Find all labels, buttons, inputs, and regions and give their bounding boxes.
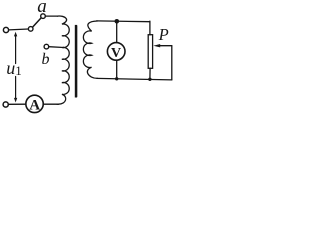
- wire secondary top: [97, 20, 150, 23]
- wire V branch lower: [116, 60, 118, 78]
- junction dot bottom (rheostat): [148, 78, 151, 81]
- secondary coil L2: [83, 21, 97, 78]
- rheostat P rectangle: [148, 35, 152, 69]
- switch pivot circle: [28, 27, 33, 32]
- wire right branch down to rheostat: [149, 21, 151, 35]
- contact b circle: [44, 44, 49, 49]
- ammeter A circle: [26, 95, 43, 112]
- wire b to coil tap: [49, 46, 62, 49]
- wire ammeter to coil: [44, 103, 59, 105]
- wire secondary bottom: [97, 78, 172, 80]
- wire right vertical (wiper return): [171, 46, 173, 80]
- terminal T1 (top left input): [3, 27, 8, 32]
- junction dot bottom (V branch): [115, 77, 118, 80]
- wire rheostat bottom lead: [149, 68, 151, 79]
- wiper arrowhead: [153, 44, 160, 47]
- svg-text:1: 1: [15, 63, 22, 78]
- u1 arrow upper segment: [15, 36, 17, 64]
- terminal T2 (bottom left input): [3, 102, 8, 107]
- wire wiper arrow line: [159, 45, 172, 47]
- wire top-left: [9, 28, 29, 31]
- transformer core bar: [75, 25, 77, 98]
- svg-text:P: P: [158, 25, 169, 44]
- switch blade: [33, 18, 42, 27]
- primary coil L1: [57, 16, 69, 104]
- svg-text:u: u: [6, 58, 15, 78]
- voltmeter V circle: [107, 43, 125, 61]
- wire a to coil: [45, 15, 57, 17]
- u1 arrowhead down: [14, 98, 17, 103]
- svg-text:a: a: [37, 0, 47, 17]
- u1 arrowhead up: [14, 32, 17, 37]
- svg-text:A: A: [29, 97, 40, 113]
- svg-text:b: b: [42, 51, 50, 68]
- contact a circle: [41, 14, 46, 19]
- u1 arrow lower segment: [15, 77, 17, 99]
- wire bottom-left to ammeter: [9, 103, 26, 105]
- junction dot top (V branch): [115, 19, 120, 24]
- wire V branch upper: [116, 21, 118, 42]
- svg-text:V: V: [111, 46, 121, 61]
